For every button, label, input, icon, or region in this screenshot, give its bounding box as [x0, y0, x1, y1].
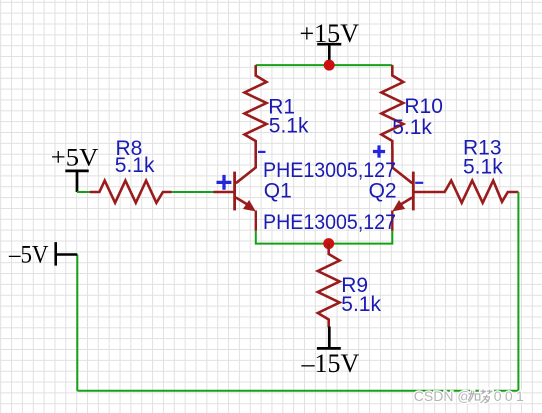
- wire R8 to Q1 base: [172, 191, 214, 193]
- wire +5V to R8: [77, 191, 91, 193]
- svg-text:–5V: –5V: [8, 241, 48, 268]
- watermark CSDN: [414, 388, 527, 404]
- svg-text:R10: R10: [404, 95, 443, 118]
- label Q2 polarity minus: [415, 182, 423, 184]
- power symbol +5V: [51, 145, 99, 192]
- power symbol -15V: [301, 327, 360, 379]
- wire R13 down right side: [517, 192, 519, 391]
- svg-text:5.1k: 5.1k: [463, 155, 503, 178]
- label R1 reference and value: [268, 95, 309, 137]
- svg-text:5.1k: 5.1k: [115, 154, 155, 177]
- svg-text:+5V: +5V: [51, 145, 99, 172]
- power symbol +15V: [300, 19, 360, 65]
- resistor R9: [318, 244, 340, 328]
- svg-text:–15V: –15V: [301, 349, 360, 378]
- junction dot top: [324, 60, 335, 71]
- wire -5V down left side: [76, 255, 78, 391]
- label R9 reference and value: [341, 274, 381, 316]
- junction dot bottom: [323, 238, 334, 249]
- label R13 reference and value: [463, 136, 503, 178]
- power symbol -5V: [8, 241, 77, 268]
- label R10 reference and value: [392, 95, 443, 139]
- svg-text:001: 001: [494, 388, 527, 404]
- resistor R8: [90, 181, 172, 203]
- label Q1 polarity plus: [217, 175, 232, 190]
- svg-text:CSDN @: CSDN @: [414, 388, 472, 404]
- label R8 reference and value: [115, 137, 155, 177]
- svg-text:Q1: Q1: [264, 179, 292, 202]
- svg-text:PHE13005,127: PHE13005,127: [263, 211, 396, 234]
- transistor Q1: [214, 149, 256, 231]
- svg-text:5.1k: 5.1k: [392, 116, 432, 139]
- label Q1 polarity minus: [258, 151, 266, 153]
- wire bottom rail: [256, 231, 392, 244]
- svg-text:5.1k: 5.1k: [269, 115, 309, 138]
- resistor R10: [381, 65, 403, 148]
- transistor Q2: [392, 149, 435, 231]
- svg-text:5.1k: 5.1k: [341, 293, 381, 316]
- resistor R13: [435, 181, 518, 203]
- resistor R1: [245, 65, 267, 148]
- label Q2 polarity plus: [373, 145, 385, 157]
- wire top rail: [256, 64, 393, 66]
- wire bottom long: [77, 390, 518, 392]
- svg-text:Q2: Q2: [369, 179, 397, 202]
